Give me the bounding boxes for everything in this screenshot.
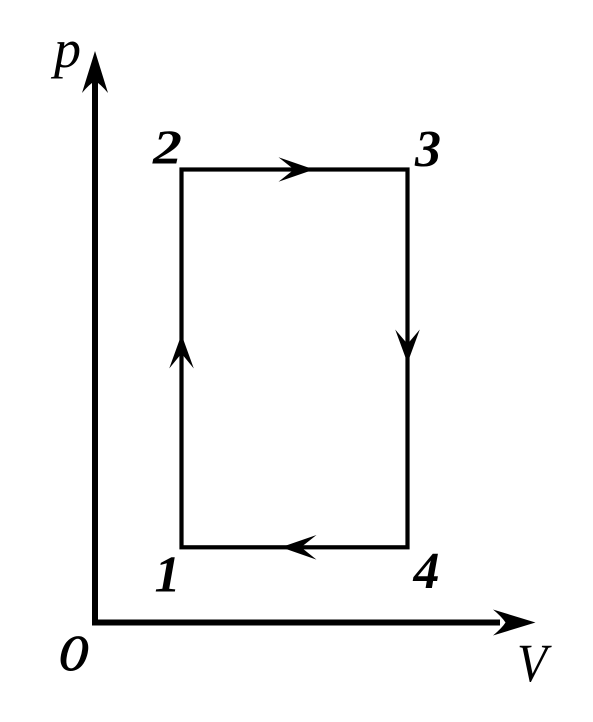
- svg-text:V: V: [517, 634, 552, 694]
- svg-text:2: 2: [152, 120, 182, 175]
- svg-text:1: 1: [155, 547, 181, 604]
- label O (origin): [56, 625, 92, 683]
- p axis (vertical): [92, 62, 98, 626]
- svg-text:p: p: [50, 19, 81, 79]
- label 2: [152, 120, 182, 175]
- arrow on right edge (3 to 4, downward): [395, 330, 420, 364]
- V axis (horizontal): [92, 620, 500, 626]
- V axis arrowhead: [493, 610, 536, 636]
- svg-text:3: 3: [414, 121, 441, 178]
- svg-text:4: 4: [413, 543, 440, 600]
- arrow on top edge (2 to 3, rightward): [279, 157, 315, 182]
- label V: [517, 634, 552, 694]
- p axis arrowhead: [82, 51, 108, 93]
- cycle rectangle 1-2-3-4: [182, 170, 408, 548]
- arrow on bottom edge (4 to 1, leftward): [281, 535, 317, 560]
- arrow on left edge (1 to 2, upward): [169, 335, 194, 369]
